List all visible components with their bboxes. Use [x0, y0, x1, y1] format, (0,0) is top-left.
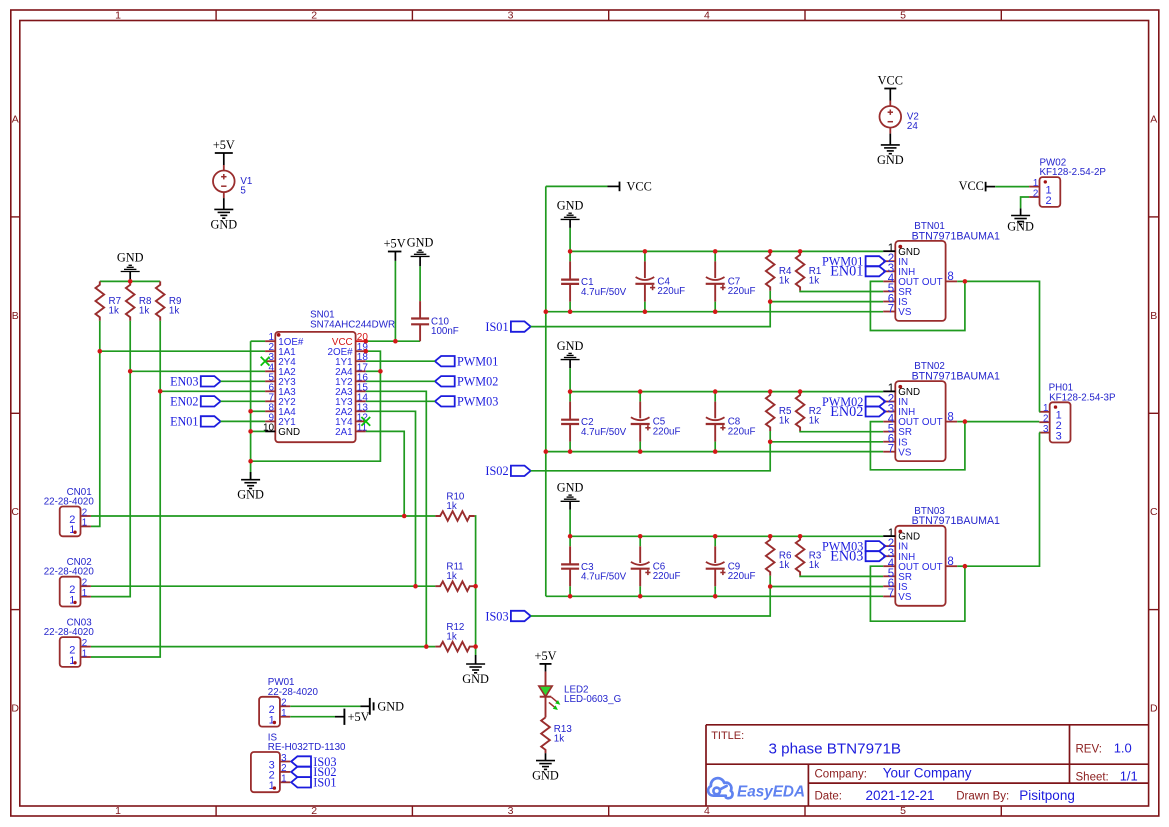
- svg-text:220uF: 220uF: [653, 571, 681, 582]
- svg-text:22-28-4020: 22-28-4020: [44, 627, 95, 638]
- svg-text:2A1: 2A1: [335, 427, 352, 438]
- svg-text:4.7uF/50V: 4.7uF/50V: [581, 572, 627, 583]
- svg-text:EN03: EN03: [170, 375, 198, 389]
- svg-text:OUT: OUT: [922, 562, 943, 573]
- svg-text:1: 1: [281, 774, 286, 785]
- svg-text:GND: GND: [237, 488, 264, 502]
- svg-text:GND: GND: [117, 251, 144, 265]
- svg-text:Sheet:: Sheet:: [1076, 771, 1109, 783]
- svg-text:1k: 1k: [779, 416, 789, 427]
- svg-text:Date:: Date:: [815, 791, 843, 803]
- svg-text:D: D: [1150, 703, 1158, 715]
- svg-text:REV:: REV:: [1076, 744, 1102, 756]
- svg-text:2: 2: [311, 805, 317, 817]
- svg-text:GND: GND: [532, 769, 559, 783]
- svg-text:220uF: 220uF: [653, 426, 681, 437]
- svg-text:IS02: IS02: [485, 464, 508, 478]
- svg-text:1k: 1k: [809, 560, 819, 571]
- svg-text:24: 24: [907, 121, 918, 132]
- svg-text:2: 2: [1033, 188, 1038, 199]
- svg-text:GND: GND: [377, 700, 404, 714]
- svg-text:BTN7971BAUMA1: BTN7971BAUMA1: [912, 230, 1000, 242]
- svg-text:4.7uF/50V: 4.7uF/50V: [581, 427, 627, 438]
- svg-text:IS01: IS01: [313, 776, 336, 790]
- svg-text:1k: 1k: [779, 560, 789, 571]
- svg-text:B: B: [1150, 310, 1157, 322]
- svg-text:2021-12-21: 2021-12-21: [866, 788, 935, 803]
- svg-text:7: 7: [888, 588, 894, 600]
- svg-text:Drawn By:: Drawn By:: [956, 791, 1009, 803]
- svg-text:1: 1: [1043, 403, 1048, 414]
- svg-text:A: A: [12, 114, 19, 126]
- svg-text:VS: VS: [898, 447, 912, 458]
- svg-text:1k: 1k: [446, 501, 456, 512]
- svg-text:BTN7971BAUMA1: BTN7971BAUMA1: [912, 371, 1000, 383]
- svg-text:8: 8: [947, 411, 953, 423]
- svg-text:C: C: [1150, 506, 1158, 518]
- svg-text:PWM03: PWM03: [457, 395, 498, 409]
- svg-text:1: 1: [82, 648, 87, 659]
- svg-text:VS: VS: [898, 307, 912, 318]
- svg-text:IS03: IS03: [485, 609, 508, 623]
- svg-text:1k: 1k: [109, 305, 119, 316]
- svg-text:3: 3: [508, 10, 514, 22]
- svg-text:3: 3: [1043, 424, 1049, 435]
- svg-text:EN01: EN01: [170, 415, 198, 429]
- svg-text:3: 3: [508, 805, 514, 817]
- svg-text:+5V: +5V: [348, 710, 370, 724]
- svg-text:GND: GND: [557, 481, 584, 495]
- svg-text:1: 1: [82, 588, 87, 599]
- svg-text:220uF: 220uF: [728, 426, 756, 437]
- svg-text:Your Company: Your Company: [883, 766, 972, 781]
- svg-text:1k: 1k: [809, 275, 819, 286]
- svg-text:1: 1: [1033, 178, 1038, 189]
- svg-text:1.0: 1.0: [1114, 741, 1132, 756]
- svg-text:OUT: OUT: [922, 277, 943, 288]
- svg-text:GND: GND: [462, 672, 489, 686]
- svg-text:B: B: [12, 310, 19, 322]
- svg-text:VCC: VCC: [878, 74, 903, 88]
- svg-text:EN02: EN02: [830, 404, 863, 420]
- svg-text:1k: 1k: [139, 305, 149, 316]
- svg-text:4: 4: [704, 10, 710, 22]
- svg-text:1: 1: [82, 518, 87, 529]
- svg-text:OUT: OUT: [922, 417, 943, 428]
- svg-text:Pisitpong: Pisitpong: [1019, 788, 1075, 803]
- svg-text:VCC: VCC: [959, 179, 984, 193]
- svg-text:3 phase BTN7971B: 3 phase BTN7971B: [769, 741, 902, 758]
- svg-text:+5V: +5V: [384, 237, 406, 251]
- svg-text:3: 3: [281, 753, 287, 764]
- svg-text:5: 5: [240, 186, 246, 197]
- svg-text:EN03: EN03: [830, 549, 863, 565]
- svg-text:EasyEDA: EasyEDA: [737, 784, 805, 801]
- svg-text:1k: 1k: [169, 305, 179, 316]
- svg-text:7: 7: [888, 444, 894, 456]
- svg-text:1: 1: [281, 708, 286, 719]
- svg-text:2: 2: [82, 638, 87, 649]
- svg-text:GND: GND: [877, 153, 904, 167]
- svg-text:PWM01: PWM01: [457, 355, 498, 369]
- svg-text:2: 2: [82, 578, 87, 589]
- svg-text:A: A: [1150, 114, 1157, 126]
- svg-text:2: 2: [1045, 195, 1051, 207]
- svg-text:220uF: 220uF: [728, 571, 756, 582]
- svg-text:1k: 1k: [554, 734, 564, 745]
- svg-text:GND: GND: [1007, 220, 1034, 234]
- svg-text:D: D: [11, 703, 19, 715]
- svg-text:1k: 1k: [779, 275, 789, 286]
- svg-text:TITLE:: TITLE:: [711, 730, 744, 742]
- svg-text:EN02: EN02: [170, 395, 198, 409]
- svg-text:RE-H032TD-1130: RE-H032TD-1130: [268, 742, 346, 753]
- svg-text:C: C: [11, 506, 19, 518]
- svg-text:VCC: VCC: [627, 179, 652, 193]
- svg-text:IS01: IS01: [485, 320, 508, 334]
- svg-text:8: 8: [947, 556, 953, 568]
- svg-text:1/1: 1/1: [1120, 769, 1138, 784]
- svg-text:22-28-4020: 22-28-4020: [44, 497, 95, 508]
- svg-text:VS: VS: [898, 592, 912, 603]
- svg-text:BTN7971BAUMA1: BTN7971BAUMA1: [912, 515, 1000, 527]
- svg-text:GND: GND: [210, 217, 237, 231]
- svg-text:1: 1: [269, 715, 275, 727]
- svg-text:PWM02: PWM02: [457, 375, 498, 389]
- svg-text:LED-0603_G: LED-0603_G: [564, 694, 621, 705]
- svg-text:KF128-2.54-3P: KF128-2.54-3P: [1049, 392, 1116, 403]
- svg-text:1k: 1k: [446, 571, 456, 582]
- svg-text:2: 2: [82, 507, 87, 518]
- svg-text:1k: 1k: [809, 416, 819, 427]
- svg-text:4.7uF/50V: 4.7uF/50V: [581, 287, 627, 298]
- svg-text:1: 1: [269, 780, 275, 792]
- svg-text:7: 7: [888, 303, 894, 315]
- svg-text:2: 2: [1043, 414, 1048, 425]
- svg-text:220uF: 220uF: [728, 286, 756, 297]
- svg-text:1: 1: [115, 10, 121, 22]
- svg-text:100nF: 100nF: [431, 326, 459, 337]
- svg-text:4: 4: [704, 805, 710, 817]
- svg-text:1: 1: [69, 524, 75, 536]
- svg-text:SN74AHC244DWR: SN74AHC244DWR: [310, 320, 395, 331]
- svg-text:22-28-4020: 22-28-4020: [44, 567, 95, 578]
- svg-text:GND: GND: [557, 339, 584, 353]
- svg-text:2: 2: [281, 698, 286, 709]
- svg-text:+5V: +5V: [213, 138, 235, 152]
- svg-text:GND: GND: [557, 199, 584, 213]
- svg-text:5: 5: [900, 805, 906, 817]
- svg-text:EN01: EN01: [830, 264, 863, 280]
- svg-text:KF128-2.54-2P: KF128-2.54-2P: [1040, 167, 1107, 178]
- svg-text:22-28-4020: 22-28-4020: [268, 687, 319, 698]
- svg-text:2: 2: [311, 10, 317, 22]
- svg-text:GND: GND: [407, 236, 434, 250]
- svg-text:+5V: +5V: [535, 649, 557, 663]
- svg-text:8: 8: [947, 271, 953, 283]
- svg-text:GND: GND: [278, 427, 300, 438]
- svg-text:1: 1: [69, 655, 75, 667]
- svg-text:220uF: 220uF: [657, 286, 685, 297]
- svg-text:1: 1: [115, 805, 121, 817]
- svg-text:1: 1: [69, 594, 75, 606]
- svg-text:2: 2: [281, 763, 286, 774]
- svg-text:3: 3: [1056, 430, 1062, 442]
- svg-text:1k: 1k: [446, 631, 456, 642]
- svg-text:Company:: Company:: [815, 768, 867, 780]
- svg-text:5: 5: [900, 10, 906, 22]
